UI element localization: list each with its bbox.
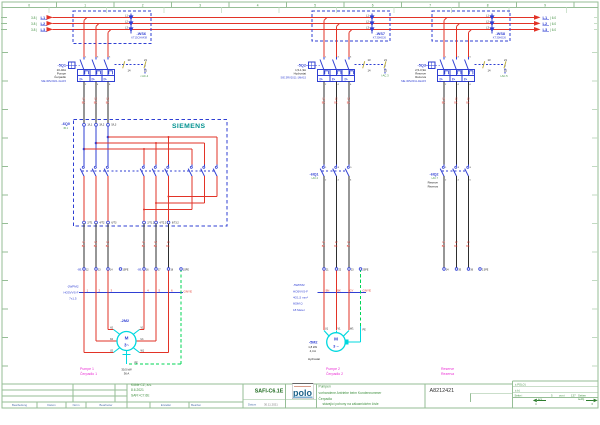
svg-text:-2WPM2: -2WPM2 (67, 284, 79, 288)
svg-text:600M Ω: 600M Ω (293, 302, 302, 306)
svg-text:KT.30HD26: KT.30HD26 (373, 36, 387, 40)
svg-text:Pumpe 1: Pumpe 1 (80, 367, 94, 371)
svg-text:Datum: Datum (248, 402, 257, 406)
svg-text:Hydrostat: Hydrostat (294, 72, 307, 76)
svg-text:Bearbeiter: Bearbeiter (100, 403, 113, 407)
svg-text:SIE.3RV2011-1EA15: SIE.3RV2011-1EA15 (401, 79, 427, 83)
svg-text:6/T3: 6/T3 (111, 221, 117, 224)
svg-text:BK: BK (466, 101, 470, 104)
svg-text:BK: BK (334, 245, 338, 248)
svg-text:SIE.3RV2011-1MA15: SIE.3RV2011-1MA15 (281, 76, 307, 80)
svg-text:-X1: -X1 (77, 268, 82, 272)
svg-text:4: 4 (257, 3, 259, 7)
svg-text:BK: BK (466, 245, 470, 248)
svg-text:Köble CZ, a.s.: Köble CZ, a.s. (131, 383, 152, 387)
svg-text:polo: polo (293, 388, 312, 398)
svg-text:-X1: -X1 (137, 268, 142, 272)
svg-text:7: 7 (429, 3, 431, 7)
svg-text:Čerpadla: Čerpadla (319, 396, 333, 401)
svg-text:/-AC.4: /-AC.4 (141, 74, 149, 78)
svg-text:Čerpadlo: Čerpadlo (54, 74, 66, 79)
svg-text:2: 2 (142, 3, 144, 7)
svg-text:13: 13 (128, 58, 131, 62)
svg-text:Seiten: Seiten (578, 394, 586, 398)
svg-text:36 A: 36 A (124, 372, 130, 376)
svg-text:13: 13 (368, 58, 371, 62)
svg-text:-WS8: -WS8 (496, 32, 506, 36)
svg-text:L2: L2 (543, 21, 548, 26)
svg-text:Bearbeitung: Bearbeitung (12, 403, 28, 407)
svg-text:Seite i: Seite i (515, 394, 523, 398)
svg-text:APF: APF (538, 398, 543, 401)
svg-text:± POLO |: ± POLO | (515, 382, 526, 386)
svg-text:von i: von i (559, 394, 565, 398)
svg-text:22: 22 (144, 68, 147, 72)
svg-text:A8212421: A8212421 (430, 388, 455, 394)
svg-text:3~: 3~ (124, 342, 129, 347)
svg-text:BK: BK (94, 245, 98, 248)
svg-text:BK: BK (442, 245, 446, 248)
svg-text:4/T2: 4/T2 (99, 221, 105, 224)
svg-text:3/L2: 3/L2 (99, 123, 104, 126)
svg-text:| 6.0: | 6.0 (550, 16, 556, 20)
svg-text:BK: BK (154, 245, 158, 248)
svg-text:9: 9 (544, 3, 546, 7)
svg-text:Pumpen: Pumpen (319, 385, 331, 389)
svg-text:I>: I> (440, 78, 443, 82)
svg-text:-5M2: -5M2 (309, 340, 318, 344)
svg-text:vorhandene Antriebe beim Kunde: vorhandene Antriebe beim Kundennummer (319, 391, 383, 395)
svg-text:L3: L3 (543, 27, 548, 32)
svg-text:-5Q3: -5Q3 (418, 64, 426, 68)
svg-text:3.8 |: 3.8 | (31, 22, 37, 26)
svg-text:BK: BK (337, 288, 341, 292)
svg-text:1SPE: 1SPE (123, 269, 129, 271)
svg-text:weitfg.: weitfg. (578, 398, 585, 401)
svg-text:PE: PE (363, 329, 367, 332)
svg-text:Rezerva: Rezerva (428, 184, 439, 188)
svg-text:4/T2.2: 4/T2.2 (159, 221, 166, 224)
svg-text:Datum: Datum (47, 403, 56, 407)
svg-text:13: 13 (488, 58, 491, 62)
svg-text:3 ~: 3 ~ (333, 343, 339, 348)
svg-text:L1: L1 (543, 15, 548, 20)
svg-text:-5Q2: -5Q2 (298, 64, 306, 68)
svg-text:0: 0 (28, 3, 30, 7)
svg-text:2/T1.2: 2/T1.2 (147, 221, 154, 224)
svg-text:Čerpadlo 2: Čerpadlo 2 (326, 371, 343, 376)
svg-text:I>: I> (104, 78, 107, 82)
svg-text:2SPE: 2SPE (363, 269, 369, 271)
svg-text:-6IQ2: -6IQ2 (430, 173, 439, 177)
svg-text:KT15CH6438: KT15CH6438 (131, 36, 147, 40)
svg-text:HO5VVS-F: HO5VVS-F (293, 289, 308, 293)
svg-text:1: 1 (84, 3, 86, 7)
svg-text:SIE.3RV2021-4LA15: SIE.3RV2021-4LA15 (41, 79, 66, 83)
svg-text:6: 6 (372, 3, 374, 7)
svg-text:I>: I> (320, 78, 323, 82)
svg-text:BK: BK (322, 101, 326, 104)
svg-text:BK: BK (454, 101, 458, 104)
svg-text:5: 5 (314, 3, 316, 7)
svg-text:I>: I> (452, 78, 455, 82)
svg-text:4,4 A: 4,4 A (310, 349, 317, 353)
svg-text:I>: I> (332, 78, 335, 82)
svg-text:-6Q0: -6Q0 (62, 122, 70, 126)
svg-text:BK: BK (454, 245, 458, 248)
svg-text:1SPE: 1SPE (183, 269, 189, 271)
svg-text:36.1: 36.1 (63, 127, 68, 130)
svg-text:BK: BK (347, 245, 351, 248)
svg-text:I>: I> (80, 78, 83, 82)
svg-text:18 Meter: 18 Meter (293, 308, 305, 312)
svg-text:BK: BK (334, 101, 338, 104)
svg-text:3.8 |: 3.8 | (31, 28, 37, 32)
svg-text:I>: I> (345, 78, 348, 82)
svg-text:14: 14 (368, 68, 371, 72)
svg-text:Reserve: Reserve (441, 367, 454, 371)
svg-text:BK: BK (442, 101, 446, 104)
svg-text:30.11.2021: 30.11.2021 (264, 402, 278, 406)
svg-text:| 6.0: | 6.0 (550, 28, 556, 32)
svg-text:1/L1: 1/L1 (87, 123, 92, 126)
svg-text:8: 8 (487, 3, 489, 7)
svg-text:GY: GY (350, 288, 354, 292)
svg-text:Bearbei: Bearbei (191, 403, 201, 407)
svg-text:22: 22 (504, 68, 507, 72)
svg-text:I>: I> (92, 78, 95, 82)
svg-text:3: 3 (199, 3, 201, 7)
svg-text:M: M (125, 336, 129, 341)
svg-text:6/T3.2: 6/T3.2 (172, 221, 179, 224)
svg-text:stávající pohony na zákaznické: stávající pohony na zákaznickém čísle (323, 402, 379, 406)
svg-text:BK: BK (82, 245, 86, 248)
svg-text:5/L3: 5/L3 (111, 123, 116, 126)
svg-text:2/T1: 2/T1 (87, 221, 93, 224)
svg-text:GNYE: GNYE (363, 289, 372, 293)
svg-text:14: 14 (488, 68, 491, 72)
svg-text:Norm: Norm (73, 403, 81, 407)
svg-text:-WS6: -WS6 (137, 32, 147, 36)
svg-text:BN: BN (326, 288, 330, 292)
svg-text:| 6.0: | 6.0 (550, 22, 556, 26)
svg-text:L2: L2 (41, 21, 46, 26)
svg-text:M: M (334, 337, 338, 342)
svg-text:Rezerva: Rezerva (441, 372, 454, 376)
svg-text:/-AC.5: /-AC.5 (500, 74, 508, 78)
svg-text:BK: BK (94, 101, 98, 104)
svg-text:BK: BK (322, 245, 326, 248)
svg-text:SAFI>C7.6E: SAFI>C7.6E (131, 393, 150, 397)
svg-text:Hydrostat: Hydrostat (308, 357, 320, 361)
svg-text:BK: BK (166, 245, 170, 248)
svg-text:GNYE: GNYE (184, 289, 193, 293)
svg-text:I>: I> (464, 78, 467, 82)
svg-text:Ersteller: Ersteller (161, 403, 171, 407)
svg-text:3.8 |: 3.8 | (31, 16, 37, 20)
svg-text:HO5VVS-F: HO5VVS-F (63, 291, 78, 295)
svg-text:/-AC.2: /-AC.2 (311, 177, 318, 180)
svg-text:2.3PE: 2.3PE (482, 269, 489, 271)
svg-text:14: 14 (128, 68, 131, 72)
svg-text:BK: BK (142, 245, 146, 248)
svg-text:BK: BK (82, 101, 86, 104)
svg-text:-2M2: -2M2 (121, 319, 130, 323)
svg-text:Rezerva: Rezerva (415, 75, 426, 79)
svg-text:Pumpe 2: Pumpe 2 (326, 367, 340, 371)
svg-text:-WS7: -WS7 (376, 32, 386, 36)
svg-text:L3: L3 (41, 27, 46, 32)
svg-text:SIEMENS: SIEMENS (172, 123, 205, 130)
svg-text:BK: BK (106, 245, 110, 248)
svg-text:L1: L1 (41, 15, 46, 20)
svg-text:Čerpadlo 1: Čerpadlo 1 (80, 371, 97, 376)
svg-text:-5Q1: -5Q1 (58, 64, 66, 68)
svg-text:KT.30HD26: KT.30HD26 (493, 36, 507, 40)
svg-text:/-AC.3: /-AC.3 (381, 74, 389, 78)
svg-text:7x1,5: 7x1,5 (69, 297, 77, 301)
svg-text:± b |: ± b | (515, 388, 520, 392)
svg-text:BK: BK (347, 101, 351, 104)
svg-text:-6IQ1: -6IQ1 (310, 173, 319, 177)
svg-text:22: 22 (384, 68, 387, 72)
svg-text:137: 137 (571, 394, 576, 398)
svg-text:4G1,5 mm²: 4G1,5 mm² (293, 296, 308, 300)
svg-text:-5WPM2: -5WPM2 (293, 283, 305, 287)
svg-text:BK: BK (106, 101, 110, 104)
svg-text:8.6.2021: 8.6.2021 (131, 388, 144, 392)
svg-text:SAFI-C6.1E: SAFI-C6.1E (255, 389, 284, 395)
